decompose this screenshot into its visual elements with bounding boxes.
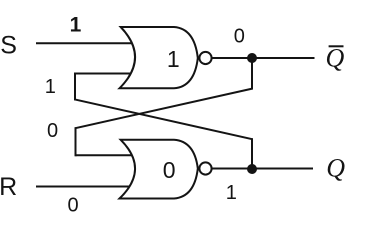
svg-text:1: 1 <box>167 46 180 72</box>
svg-text:1: 1 <box>70 13 82 36</box>
svg-text:0: 0 <box>234 26 245 48</box>
svg-text:0: 0 <box>163 157 176 183</box>
svg-text:Q: Q <box>326 44 345 73</box>
svg-text:S: S <box>0 31 17 59</box>
svg-text:1: 1 <box>226 182 237 204</box>
svg-text:0: 0 <box>47 120 58 142</box>
svg-text:R: R <box>0 173 17 201</box>
svg-text:Q: Q <box>326 154 345 183</box>
svg-text:1: 1 <box>45 76 56 98</box>
svg-text:0: 0 <box>67 194 78 216</box>
